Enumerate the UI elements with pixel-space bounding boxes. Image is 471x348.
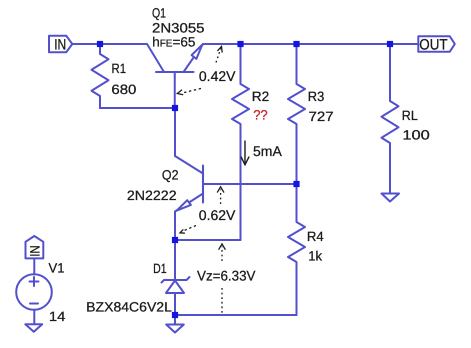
svg-text:OUT: OUT	[419, 36, 447, 53]
transistor Q2	[202, 166, 204, 203]
svg-text:5mA: 5mA	[253, 143, 282, 159]
resistor R2	[232, 44, 249, 240]
svg-text:D1: D1	[153, 261, 167, 276]
node divider junction	[293, 181, 299, 187]
wire emitter node to R2	[175, 239, 241, 241]
wire top rail right	[203, 43, 418, 45]
ground (main)	[174, 315, 176, 325]
resistor R1	[92, 44, 109, 108]
svg-text:R2: R2	[252, 89, 270, 104]
svg-text:IN: IN	[54, 37, 66, 54]
ground (V1)	[25, 324, 42, 331]
svg-text:14: 14	[49, 309, 66, 324]
resistor RL	[382, 44, 399, 194]
annotation arrow Vz down	[221, 288, 223, 313]
svg-text:R4: R4	[307, 229, 324, 244]
svg-text:Q2: Q2	[162, 168, 179, 183]
node IN junction	[97, 41, 103, 47]
wire top rail left	[72, 43, 147, 45]
annotation arrow 0.42V to emitter rail	[216, 47, 222, 63]
svg-text:R1: R1	[112, 61, 127, 76]
node OUT junction R3	[293, 41, 299, 47]
svg-text:680: 680	[111, 82, 136, 97]
svg-text:Q1: Q1	[152, 6, 166, 21]
voltage source V1	[16, 274, 52, 310]
node Q1 base junction	[172, 105, 178, 111]
annotation arrow 5mA	[241, 141, 249, 165]
wire Q2 emitter	[174, 212, 176, 241]
annotation arrow 0.42V to base	[177, 89, 201, 95]
port IN	[49, 36, 72, 52]
svg-text:??: ??	[253, 108, 268, 123]
svg-text:V1: V1	[49, 261, 65, 276]
wire V1 bottom	[33, 310, 35, 325]
resistor R3	[288, 44, 305, 184]
node OUT junction RL	[387, 41, 393, 47]
ground (RL)	[382, 194, 400, 202]
svg-text:BZX84C6V2L: BZX84C6V2L	[86, 300, 172, 315]
net tag IN on V1	[26, 236, 44, 258]
annotation arrow 0.62V to emitter node	[180, 226, 196, 234]
wire bottom rail	[175, 314, 297, 316]
wire Q2 base net	[203, 183, 297, 185]
svg-text:727: 727	[309, 109, 334, 124]
svg-text:IN: IN	[28, 245, 43, 257]
annotation arrow Vz up	[219, 244, 226, 261]
wire V1 top	[33, 258, 35, 274]
svg-text:2N2222: 2N2222	[127, 188, 177, 203]
node ground junction	[172, 312, 178, 318]
wire node B (Q1 base to Q2 collector)	[174, 108, 176, 156]
zener diode D1	[174, 240, 176, 280]
svg-text:1k: 1k	[308, 249, 322, 264]
svg-text:2N3055: 2N3055	[152, 20, 205, 35]
svg-text:R3: R3	[308, 89, 325, 104]
annotation arrow 0.62V to base	[217, 187, 224, 204]
resistor R4	[288, 184, 305, 315]
svg-text:100: 100	[402, 127, 429, 142]
port OUT	[418, 36, 455, 51]
node OUT junction R2	[237, 41, 243, 47]
svg-text:Vz=6.33V: Vz=6.33V	[197, 268, 256, 284]
svg-text:0.42V: 0.42V	[199, 68, 236, 84]
node emitter junction	[172, 237, 178, 243]
svg-text:RL: RL	[402, 108, 418, 123]
svg-text:0.62V: 0.62V	[199, 207, 236, 223]
svg-text:hFE=65: hFE=65	[152, 35, 195, 50]
transistor Q1	[156, 71, 194, 73]
wire R1 bottom	[100, 107, 175, 109]
